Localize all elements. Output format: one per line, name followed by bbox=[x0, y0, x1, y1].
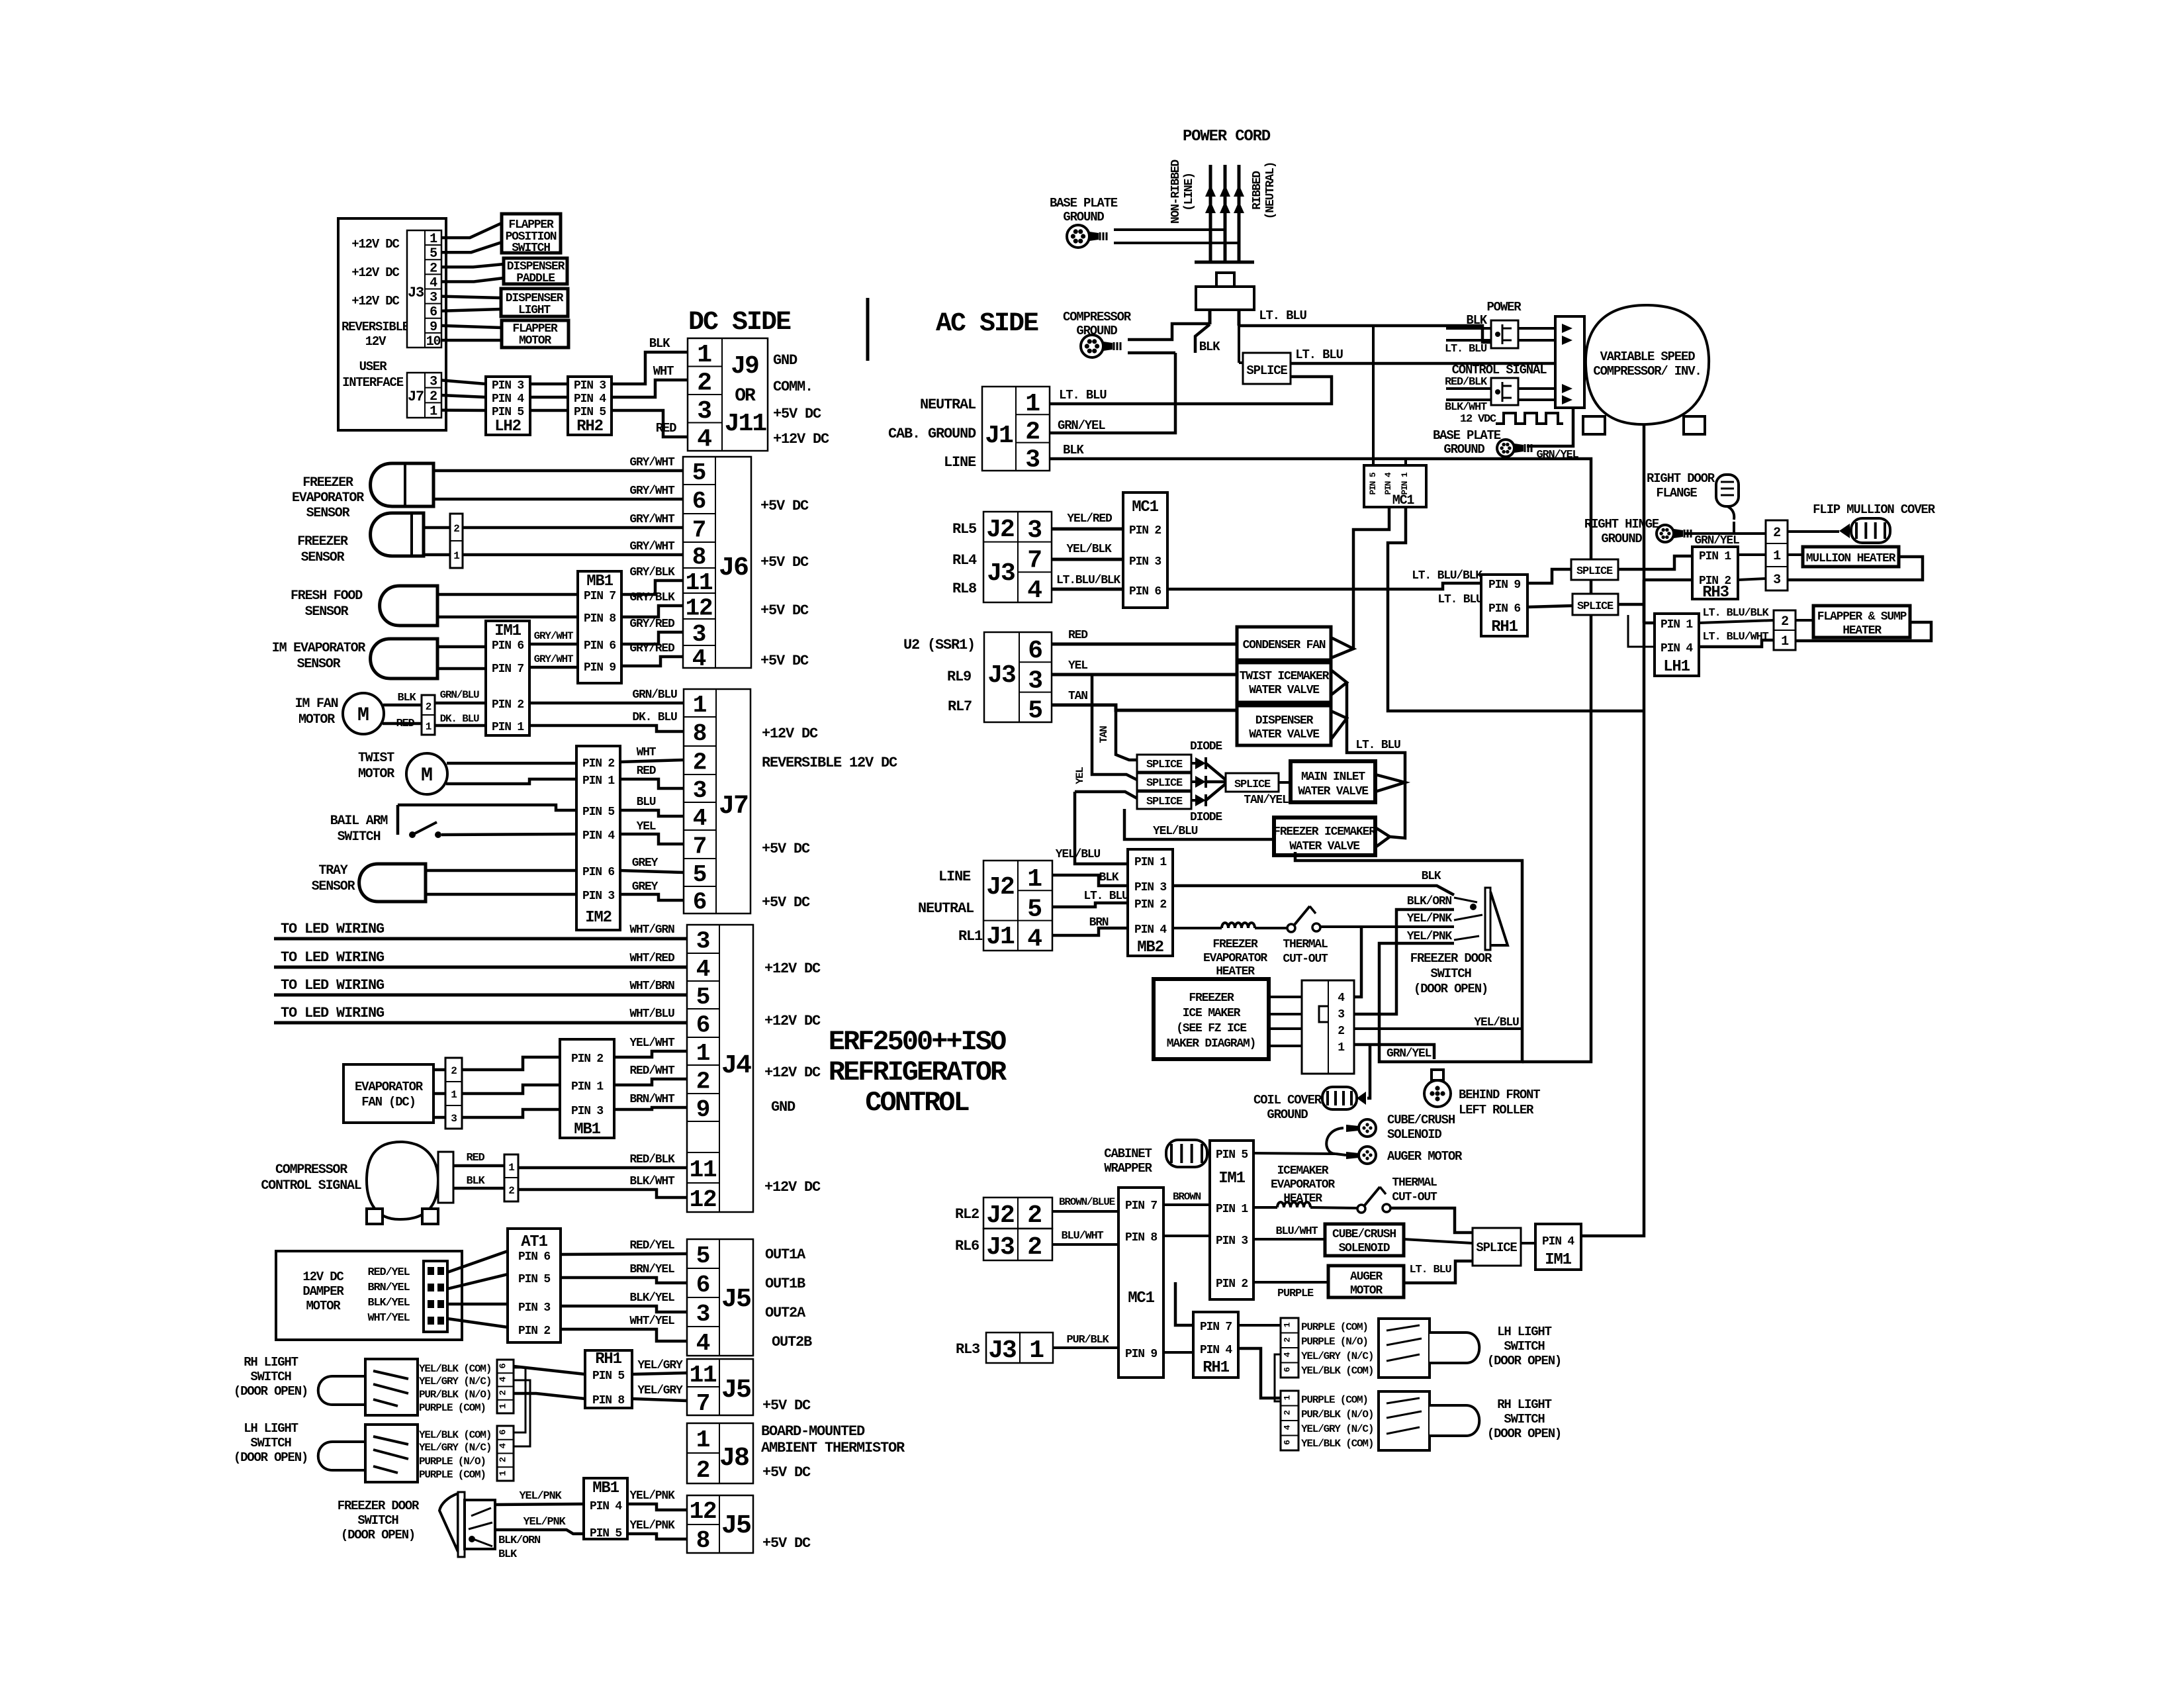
wire RED/WHT MB1 to J4 pin2 bbox=[614, 1079, 687, 1085]
svg-text:COMPRESSOR: COMPRESSOR bbox=[1063, 310, 1132, 324]
divider line between DC and AC side bbox=[866, 298, 870, 361]
svg-text:+5V DC: +5V DC bbox=[760, 602, 809, 619]
wire flange to GRN/YEL wire bbox=[1733, 522, 1735, 534]
wire RED/YEL AT1 to J5 pin5 bbox=[561, 1254, 687, 1254]
svg-text:IM1: IM1 bbox=[494, 622, 521, 640]
svg-text:YEL/PNK: YEL/PNK bbox=[1407, 930, 1453, 943]
wire YEL IM2 to J7 pin7 bbox=[620, 834, 684, 844]
wire LT.BLU/BLK RL8 to MC1 pin6 bbox=[1052, 588, 1123, 591]
svg-text:PIN 3: PIN 3 bbox=[492, 379, 523, 393]
svg-text:PIN 2: PIN 2 bbox=[1216, 1278, 1248, 1291]
svg-text:5: 5 bbox=[692, 459, 705, 487]
svg-text:MOTOR: MOTOR bbox=[306, 1299, 341, 1313]
svg-text:LT. BLU: LT. BLU bbox=[1259, 308, 1306, 323]
svg-text:(DOOR OPEN): (DOOR OPEN) bbox=[341, 1528, 415, 1542]
wire BLU/WHT MC1 pin8 to IM1 pin3 bbox=[1163, 1235, 1210, 1237]
svg-text:8: 8 bbox=[696, 1527, 709, 1554]
svg-text:7: 7 bbox=[693, 833, 706, 861]
connector RL6 J3-2 bbox=[983, 1229, 1052, 1260]
svg-text:BRN/YEL: BRN/YEL bbox=[367, 1282, 410, 1294]
svg-text:PIN 2: PIN 2 bbox=[518, 1325, 550, 1338]
connector J2/J3 (RL5 RL4 RL8) bbox=[983, 512, 1052, 602]
wire RED/BLK to J4 pin11 bbox=[518, 1166, 687, 1170]
wires control switch to inverter bbox=[1518, 387, 1555, 390]
valve collector LT. BLU path bbox=[1347, 682, 1405, 838]
svg-text:(DOOR OPEN): (DOOR OPEN) bbox=[234, 1450, 308, 1465]
svg-text:J9: J9 bbox=[731, 352, 758, 381]
svg-text:8: 8 bbox=[692, 544, 705, 571]
cross wire between switch connectors bbox=[1275, 1354, 1298, 1401]
wire plug left prong BLK bbox=[1195, 324, 1210, 353]
connector RL3 J3-1 bbox=[986, 1333, 1053, 1363]
cube/crush solenoid connector bbox=[1359, 1119, 1376, 1137]
svg-text:YEL/PNK: YEL/PNK bbox=[629, 1519, 675, 1532]
svg-text:SPLICE: SPLICE bbox=[1234, 778, 1271, 791]
thermal cut-out (freezer) bbox=[1255, 927, 1287, 929]
svg-text:PIN 1: PIN 1 bbox=[1134, 856, 1167, 869]
splice (lower mullion) bbox=[1572, 594, 1618, 615]
svg-text:PIN 6: PIN 6 bbox=[1129, 585, 1161, 598]
svg-text:3: 3 bbox=[1025, 446, 1040, 475]
connector 2-1 (flapper heater) bbox=[1774, 610, 1796, 650]
svg-text:11: 11 bbox=[690, 1362, 717, 1389]
wire twist motor to IM2 pin2 bbox=[447, 762, 576, 765]
svg-text:PIN 7: PIN 7 bbox=[1200, 1321, 1232, 1334]
svg-text:+12V DC: +12V DC bbox=[351, 294, 399, 308]
im evaporator sensor bbox=[371, 639, 437, 679]
svg-text:PURPLE (N/O): PURPLE (N/O) bbox=[419, 1456, 486, 1468]
connector MC1 (top) bbox=[1364, 465, 1426, 507]
svg-text:FREEZER: FREEZER bbox=[297, 534, 348, 549]
wires IM1 pin5 to solenoid and auger connectors bbox=[1253, 1153, 1336, 1154]
svg-text:PIN 1: PIN 1 bbox=[492, 721, 524, 734]
svg-text:4: 4 bbox=[498, 1377, 509, 1382]
svg-text:AUGER MOTOR: AUGER MOTOR bbox=[1387, 1149, 1463, 1164]
svg-text:YEL/BLU: YEL/BLU bbox=[1153, 825, 1198, 838]
svg-text:1: 1 bbox=[498, 1471, 509, 1476]
wire GRY/WHT IM1 to MB1 pin6 bbox=[529, 643, 578, 646]
svg-text:GRN/YEL: GRN/YEL bbox=[1536, 449, 1578, 461]
svg-text:J6: J6 bbox=[719, 553, 748, 583]
svg-text:MULLION HEATER: MULLION HEATER bbox=[1806, 552, 1896, 565]
svg-text:+5V DC: +5V DC bbox=[762, 1535, 811, 1552]
svg-text:CUT-OUT: CUT-OUT bbox=[1392, 1191, 1437, 1204]
svg-text:GRN/BLU: GRN/BLU bbox=[440, 689, 479, 701]
svg-text:BASE PLATE: BASE PLATE bbox=[1050, 196, 1118, 211]
svg-text:TWIST ICEMAKER: TWIST ICEMAKER bbox=[1240, 670, 1330, 683]
svg-text:+5V DC: +5V DC bbox=[760, 554, 809, 571]
wire J3-2 to dispenser paddle bbox=[441, 264, 504, 267]
svg-text:YEL/GRY: YEL/GRY bbox=[637, 1359, 683, 1372]
wire YEL/BLK RL4 to MC1 pin3 bbox=[1052, 558, 1123, 561]
wire bail arm to IM2 pin4 bbox=[441, 834, 576, 835]
wire RED/BLK into control switch bbox=[1446, 387, 1491, 390]
svg-text:RED: RED bbox=[637, 765, 657, 778]
svg-text:1: 1 bbox=[696, 1040, 710, 1067]
wire flapper heater loop to connector 1 bbox=[1796, 622, 1931, 641]
svg-text:SPLICE: SPLICE bbox=[1476, 1241, 1517, 1255]
svg-text:BRN/WHT: BRN/WHT bbox=[629, 1093, 675, 1106]
im fan motor connector 2-1 bbox=[422, 695, 435, 735]
svg-text:PIN 7: PIN 7 bbox=[1125, 1199, 1157, 1213]
wire evap fan pin2 to MB1 pin2 bbox=[462, 1057, 560, 1070]
svg-text:J3: J3 bbox=[408, 285, 424, 301]
svg-text:RED: RED bbox=[396, 718, 414, 730]
wire RH1 pin4 to RH switch connector bbox=[1238, 1348, 1281, 1398]
svg-text:GRY/WHT: GRY/WHT bbox=[629, 513, 675, 526]
wire TO LED WIRING 3 bbox=[274, 994, 687, 997]
svg-text:(DOOR OPEN): (DOOR OPEN) bbox=[1487, 1354, 1561, 1368]
svg-text:5: 5 bbox=[696, 984, 709, 1011]
svg-text:J5: J5 bbox=[721, 1511, 751, 1541]
connector RH1 (left) bbox=[585, 1350, 632, 1408]
wire BROWN MC1 pin7 to IM1 pin1 bbox=[1163, 1203, 1210, 1206]
svg-text:EVAPORATOR: EVAPORATOR bbox=[1203, 952, 1267, 965]
flapper and sump heater box bbox=[1813, 606, 1910, 637]
svg-text:GRN/BLU: GRN/BLU bbox=[632, 688, 677, 702]
svg-text:J3: J3 bbox=[987, 661, 1015, 690]
wire GRY/WHT to J6 pin5 bbox=[433, 469, 683, 473]
svg-text:4: 4 bbox=[696, 956, 710, 983]
svg-text:AC SIDE: AC SIDE bbox=[936, 309, 1038, 339]
svg-text:7: 7 bbox=[1027, 547, 1042, 575]
svg-text:BLK/ORN: BLK/ORN bbox=[498, 1534, 541, 1547]
wire splice to pin4 IM1 bbox=[1521, 1242, 1535, 1244]
svg-text:1: 1 bbox=[451, 1089, 457, 1101]
connector LH2 bbox=[486, 377, 530, 435]
wire YEL/GRY RH1 to J5 pin11 bbox=[632, 1373, 687, 1374]
svg-text:1: 1 bbox=[453, 550, 459, 562]
svg-text:RH1: RH1 bbox=[1491, 618, 1518, 636]
svg-text:LIGHT: LIGHT bbox=[518, 304, 551, 317]
wire RH1 pin7 to LH switch connector bbox=[1238, 1324, 1281, 1327]
svg-text:6: 6 bbox=[1028, 637, 1042, 665]
plug bar bbox=[1195, 261, 1254, 264]
svg-text:2: 2 bbox=[693, 749, 706, 776]
svg-text:7: 7 bbox=[696, 1390, 709, 1417]
wire LT. BLU/BLK MC1 pin6 to RH1 pin9 bbox=[1167, 583, 1481, 589]
svg-text:YEL/BLK (COM): YEL/BLK (COM) bbox=[419, 1429, 491, 1441]
wire J3-3 to dispenser light bbox=[441, 297, 501, 298]
svg-text:PIN 8: PIN 8 bbox=[592, 1394, 624, 1407]
wire fresh food sensor to MB1 pin7 bbox=[437, 593, 578, 596]
svg-text:2: 2 bbox=[508, 1185, 514, 1197]
svg-text:+5V DC: +5V DC bbox=[760, 653, 809, 669]
svg-text:PIN 5: PIN 5 bbox=[1216, 1149, 1248, 1162]
svg-text:11: 11 bbox=[690, 1156, 717, 1184]
wire mullion heater loop to pin3 bbox=[1788, 557, 1923, 580]
wire BROWN/BLUE RL2 to MC1 pin7 bbox=[1052, 1210, 1118, 1213]
svg-text:1: 1 bbox=[697, 341, 711, 369]
svg-text:YEL/RED: YEL/RED bbox=[1067, 512, 1113, 526]
svg-text:PIN 2: PIN 2 bbox=[492, 698, 523, 712]
svg-text:PIN 2: PIN 2 bbox=[582, 757, 614, 771]
wire cabinet wrapper to IM1 pin5 bbox=[1207, 1152, 1210, 1154]
freezer icemaker valve bracket bbox=[1375, 827, 1390, 847]
wires compressor ground bbox=[1128, 324, 1210, 340]
svg-text:BLK/WHT: BLK/WHT bbox=[1445, 401, 1487, 414]
svg-text:PADDLE: PADDLE bbox=[516, 272, 555, 285]
svg-text:OUT1B: OUT1B bbox=[765, 1276, 805, 1292]
svg-text:RL3: RL3 bbox=[956, 1341, 980, 1358]
svg-text:PURPLE: PURPLE bbox=[1277, 1288, 1314, 1300]
wire GRY/BLK MB1 to J6 pin12 bbox=[621, 606, 683, 617]
wire GRN/YEL right hinge to connector bbox=[1685, 532, 1766, 535]
wire evap fan pin1 to MB1 pin1 bbox=[462, 1085, 560, 1094]
wire connector pin2 to flip mullion cover bbox=[1788, 530, 1839, 533]
svg-text:CONTROL SIGNAL: CONTROL SIGNAL bbox=[261, 1178, 361, 1194]
svg-text:GROUND: GROUND bbox=[1601, 532, 1642, 546]
svg-text:1: 1 bbox=[508, 1162, 514, 1174]
svg-text:3: 3 bbox=[1027, 516, 1042, 545]
wire BLK/WHT to J4 pin12 bbox=[518, 1190, 687, 1197]
svg-text:FAN (DC): FAN (DC) bbox=[361, 1095, 416, 1109]
svg-text:J5: J5 bbox=[721, 1285, 751, 1315]
svg-text:YEL/GRY: YEL/GRY bbox=[637, 1384, 683, 1397]
svg-text:PIN 6: PIN 6 bbox=[518, 1250, 550, 1264]
svg-text:RL9: RL9 bbox=[947, 669, 971, 685]
svg-text:PUR/BLK (N/O): PUR/BLK (N/O) bbox=[419, 1389, 491, 1401]
wire GREY IM2 to J7 pin5 bbox=[620, 870, 684, 872]
svg-text:YEL/BLU: YEL/BLU bbox=[1056, 848, 1101, 861]
twist valve bracket bbox=[1331, 670, 1347, 695]
svg-text:RH1: RH1 bbox=[595, 1350, 621, 1368]
auger motor box bbox=[1328, 1266, 1404, 1297]
freezer evaporator heater coil bbox=[1173, 927, 1222, 929]
svg-text:3: 3 bbox=[1773, 573, 1780, 588]
svg-text:2: 2 bbox=[1027, 1233, 1042, 1262]
svg-text:+12V DC: +12V DC bbox=[762, 726, 818, 742]
RH light switch connector 6-4-2-1 bbox=[497, 1360, 514, 1413]
wire loop around freezer door switch bbox=[1295, 852, 1522, 1062]
connector RH1 (mullion) bbox=[1481, 575, 1527, 636]
svg-text:M: M bbox=[421, 765, 433, 787]
svg-text:6: 6 bbox=[693, 889, 706, 916]
svg-text:2: 2 bbox=[498, 1390, 509, 1395]
svg-text:DC SIDE: DC SIDE bbox=[688, 308, 791, 338]
svg-text:PIN 1: PIN 1 bbox=[1661, 618, 1693, 632]
svg-text:RIGHT HINGE: RIGHT HINGE bbox=[1584, 517, 1659, 532]
svg-text:RED/WHT: RED/WHT bbox=[629, 1064, 675, 1078]
svg-text:PUR/BLK: PUR/BLK bbox=[1066, 1334, 1109, 1346]
svg-text:NEUTRAL: NEUTRAL bbox=[920, 397, 976, 413]
svg-text:SENSOR: SENSOR bbox=[301, 550, 345, 565]
svg-text:LH LIGHT: LH LIGHT bbox=[1497, 1325, 1551, 1339]
svg-text:GRY/WHT: GRY/WHT bbox=[629, 540, 675, 553]
wire RED U2 to condenser fan bbox=[1052, 643, 1237, 646]
connector J1 bbox=[982, 387, 1050, 471]
svg-text:USER: USER bbox=[359, 359, 388, 374]
wire coil cover ground up to GRN/YEL bbox=[1367, 1045, 1370, 1098]
svg-text:SWITCH: SWITCH bbox=[250, 1436, 291, 1450]
svg-text:BLK: BLK bbox=[1099, 871, 1119, 884]
svg-text:RED/BLK: RED/BLK bbox=[629, 1153, 675, 1166]
wire RED compressor bbox=[453, 1164, 504, 1168]
svg-text:RH LIGHT: RH LIGHT bbox=[244, 1355, 298, 1370]
plug body bbox=[1216, 273, 1234, 287]
splice (power cord) bbox=[1243, 353, 1291, 384]
svg-text:CAB. GROUND: CAB. GROUND bbox=[888, 426, 976, 442]
svg-text:FLANGE: FLANGE bbox=[1656, 486, 1697, 500]
wire lower splice to junction net bbox=[1618, 603, 1644, 606]
freezer ice maker connector bbox=[1302, 980, 1354, 1074]
svg-text:+5V DC: +5V DC bbox=[762, 1397, 811, 1414]
svg-text:SENSOR: SENSOR bbox=[297, 657, 341, 672]
wire RED RH2 to J9 pin4 bbox=[612, 410, 688, 437]
svg-text:GRY/BLK: GRY/BLK bbox=[629, 566, 675, 579]
svg-text:PIN 5: PIN 5 bbox=[492, 406, 523, 419]
svg-text:M: M bbox=[357, 704, 369, 727]
wire BRN/WHT MB1 to J4 pin9 bbox=[614, 1107, 687, 1109]
svg-text:PIN 6: PIN 6 bbox=[1488, 602, 1520, 616]
svg-text:LEFT ROLLER: LEFT ROLLER bbox=[1459, 1103, 1534, 1117]
wire GRY/WHT IM1 to MB1 pin9 bbox=[529, 666, 578, 669]
splice 1 bbox=[1137, 755, 1191, 772]
svg-text:IM2: IM2 bbox=[585, 909, 612, 927]
inverter connector bar bbox=[1555, 316, 1584, 408]
svg-text:PIN 4: PIN 4 bbox=[582, 829, 615, 843]
svg-text:10: 10 bbox=[426, 334, 441, 350]
cube/crush solenoid box bbox=[1325, 1224, 1404, 1256]
svg-text:WHT/BRN: WHT/BRN bbox=[629, 980, 674, 993]
svg-text:J8: J8 bbox=[719, 1444, 749, 1474]
svg-text:LT. BLU: LT. BLU bbox=[1409, 1264, 1451, 1276]
svg-text:1: 1 bbox=[693, 692, 707, 719]
svg-text:+5V DC: +5V DC bbox=[762, 841, 810, 857]
svg-text:LT. BLU: LT. BLU bbox=[1295, 348, 1343, 362]
svg-text:PIN 1: PIN 1 bbox=[571, 1080, 604, 1094]
svg-text:BRN/YEL: BRN/YEL bbox=[629, 1263, 674, 1276]
svg-text:GRY/BLK: GRY/BLK bbox=[629, 591, 675, 604]
svg-text:(DOOR OPEN): (DOOR OPEN) bbox=[234, 1384, 308, 1399]
svg-text:SPLICE: SPLICE bbox=[1246, 363, 1287, 378]
wire DK. BLU connector to IM1 pin1 bbox=[435, 724, 486, 727]
svg-text:WRAPPER: WRAPPER bbox=[1104, 1161, 1152, 1176]
svg-text:YEL/WHT: YEL/WHT bbox=[629, 1037, 675, 1050]
svg-text:RL7: RL7 bbox=[948, 698, 972, 715]
svg-text:J3: J3 bbox=[986, 1233, 1014, 1262]
svg-text:LT. BLU: LT. BLU bbox=[1355, 739, 1400, 752]
svg-text:(DOOR OPEN): (DOOR OPEN) bbox=[1487, 1427, 1561, 1441]
svg-text:SOLENOID: SOLENOID bbox=[1387, 1127, 1441, 1142]
svg-text:3: 3 bbox=[692, 621, 705, 648]
svg-text:LINE: LINE bbox=[944, 454, 976, 471]
svg-text:YEL/PNK: YEL/PNK bbox=[629, 1489, 675, 1503]
wire YEL/PNK door switch to MB1 pin5 bbox=[495, 1530, 583, 1534]
svg-text:CONTROL: CONTROL bbox=[865, 1087, 969, 1119]
wire BLK/WHT into control switch bbox=[1446, 399, 1491, 401]
svg-text:YEL: YEL bbox=[1068, 659, 1087, 673]
connector 2-1-3 (mullion) bbox=[1766, 520, 1788, 590]
flapper position switch box bbox=[502, 214, 561, 253]
wire BLK im fan to connector bbox=[383, 704, 422, 707]
wire LT. BLU auger box to splice bbox=[1404, 1261, 1473, 1283]
svg-text:J11: J11 bbox=[725, 410, 767, 438]
svg-text:+12V DC: +12V DC bbox=[764, 1179, 821, 1196]
svg-text:+12V DC: +12V DC bbox=[351, 237, 399, 252]
svg-text:6: 6 bbox=[692, 488, 705, 515]
svg-text:PIN 4: PIN 4 bbox=[492, 393, 524, 406]
tray sensor bbox=[359, 864, 426, 902]
svg-text:FLIP MULLION COVER: FLIP MULLION COVER bbox=[1813, 502, 1935, 517]
svg-text:11: 11 bbox=[686, 569, 713, 596]
freezer evaporator sensor bbox=[371, 463, 433, 506]
connector IM2 bbox=[576, 746, 620, 930]
svg-text:12 VDC: 12 VDC bbox=[1460, 413, 1496, 426]
svg-text:PIN 4: PIN 4 bbox=[1542, 1235, 1574, 1248]
svg-text:EVAPORATOR: EVAPORATOR bbox=[1271, 1178, 1335, 1192]
svg-text:WATER VALVE: WATER VALVE bbox=[1298, 785, 1369, 798]
flip mullion cover icon bbox=[1839, 524, 1850, 538]
svg-text:8: 8 bbox=[693, 720, 706, 747]
svg-text:BEHIND FRONT: BEHIND FRONT bbox=[1459, 1088, 1540, 1102]
freezer ice maker box bbox=[1154, 979, 1269, 1059]
svg-text:WHT/YEL: WHT/YEL bbox=[629, 1315, 674, 1328]
behind front left roller bulb bbox=[1424, 1080, 1451, 1107]
dispenser paddle box bbox=[504, 258, 567, 284]
wire to MC1 pin5 from LT. BLU bbox=[1372, 326, 1375, 465]
svg-text:5: 5 bbox=[1028, 697, 1042, 726]
freezer icemaker water valve box bbox=[1274, 818, 1375, 855]
svg-text:DK. BLU: DK. BLU bbox=[440, 713, 479, 725]
compressor (control signal) bbox=[367, 1142, 438, 1219]
wire PUR/BLK RL3 to MC1 pin9 bbox=[1053, 1346, 1118, 1349]
variable speed compressor / inverter bbox=[1586, 305, 1709, 424]
svg-text:PIN 6: PIN 6 bbox=[582, 866, 614, 879]
svg-text:LT.BLU/BLK: LT.BLU/BLK bbox=[1056, 574, 1120, 587]
evaporator fan connector 2-1-3 bbox=[445, 1058, 462, 1129]
svg-text:3: 3 bbox=[1028, 667, 1042, 695]
dispenser water valve box bbox=[1237, 706, 1331, 745]
svg-text:12: 12 bbox=[690, 1186, 717, 1213]
svg-text:PIN 4: PIN 4 bbox=[1661, 642, 1693, 655]
svg-text:AMBIENT THERMISTOR: AMBIENT THERMISTOR bbox=[761, 1440, 905, 1456]
svg-text:POWER: POWER bbox=[1486, 300, 1522, 314]
svg-text:4: 4 bbox=[697, 426, 711, 454]
wire LT. BLU splice long net bbox=[1291, 363, 1644, 1236]
svg-text:MB2: MB2 bbox=[1137, 939, 1163, 957]
svg-text:EVAPORATOR: EVAPORATOR bbox=[292, 491, 364, 506]
wires LH2 to RH2 bbox=[530, 383, 568, 386]
wire J3-10 to flapper motor bbox=[441, 339, 502, 342]
svg-text:BLK: BLK bbox=[1466, 313, 1487, 328]
wire J3-9 to flapper motor bbox=[441, 326, 502, 328]
svg-text:FREEZER DOOR: FREEZER DOOR bbox=[338, 1499, 420, 1513]
wire MC1 pin9 to RH1 pin4 bbox=[1163, 1351, 1193, 1354]
wire BLK RH2 to J9 pin1 bbox=[612, 352, 688, 384]
svg-text:YEL/PNK: YEL/PNK bbox=[519, 1490, 562, 1503]
connector MB1 (door switch) bbox=[584, 1478, 627, 1539]
svg-text:PIN 5: PIN 5 bbox=[592, 1370, 624, 1383]
wire GRN/BLU connector to IM1 pin2 bbox=[435, 702, 486, 705]
svg-text:12: 12 bbox=[690, 1498, 717, 1525]
svg-text:OUT1A: OUT1A bbox=[765, 1246, 806, 1263]
connector J5 (damper outputs) bbox=[687, 1239, 753, 1356]
svg-text:GND: GND bbox=[773, 352, 797, 369]
svg-text:PIN 3: PIN 3 bbox=[1216, 1235, 1248, 1248]
svg-text:NEUTRAL: NEUTRAL bbox=[918, 900, 974, 917]
svg-text:MOTOR: MOTOR bbox=[358, 767, 394, 782]
svg-text:YEL/PNK: YEL/PNK bbox=[523, 1516, 566, 1528]
svg-text:YEL/BLK (COM): YEL/BLK (COM) bbox=[1301, 1365, 1373, 1377]
connector RH3 bbox=[1692, 547, 1738, 599]
svg-text:2: 2 bbox=[697, 369, 711, 398]
connector J7 bbox=[684, 689, 751, 914]
svg-text:FREEZER: FREEZER bbox=[302, 475, 353, 491]
svg-text:IM1: IM1 bbox=[1545, 1251, 1571, 1269]
wire icemaker cutout to splice bbox=[1390, 1208, 1473, 1233]
wire TO LED WIRING 4 bbox=[274, 1021, 687, 1025]
